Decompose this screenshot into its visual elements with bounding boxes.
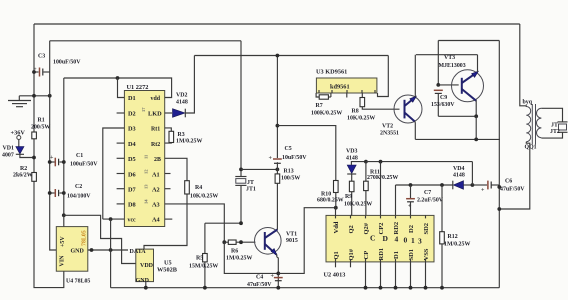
svg-text:D7: D7 <box>128 187 136 194</box>
svg-text:104/100V: 104/100V <box>67 194 91 200</box>
svg-text:Q2#: Q2# <box>363 222 370 234</box>
svg-text:VT1: VT1 <box>286 232 297 238</box>
svg-text:Q1: Q1 <box>333 251 340 259</box>
svg-text:270K/0.25W: 270K/0.25W <box>367 175 398 181</box>
svg-text:13: 13 <box>144 184 149 189</box>
svg-text:U5: U5 <box>164 260 172 267</box>
svg-text:C4: C4 <box>256 275 263 281</box>
svg-text:47uF/50V: 47uF/50V <box>247 282 272 288</box>
svg-text:R9: R9 <box>345 194 352 200</box>
svg-text:U3 KD9561: U3 KD9561 <box>316 69 347 76</box>
svg-text:MJE13003: MJE13003 <box>439 63 466 69</box>
svg-text:2B: 2B <box>154 157 161 163</box>
svg-text:U1 2272: U1 2272 <box>127 84 149 91</box>
svg-text:153/630V: 153/630V <box>431 102 455 108</box>
svg-text:R5: R5 <box>196 256 203 262</box>
svg-text:D: D <box>383 234 389 243</box>
svg-text:vcc: vcc <box>128 218 137 224</box>
svg-text:D4: D4 <box>128 141 137 148</box>
svg-text:C5: C5 <box>285 146 292 152</box>
svg-text:A2: A2 <box>152 187 160 194</box>
svg-text:GND: GND <box>71 248 85 254</box>
svg-text:1M/0.25W: 1M/0.25W <box>444 242 470 248</box>
svg-text:R8: R8 <box>352 109 359 115</box>
svg-text:LKD: LKD <box>148 111 162 118</box>
svg-text:R6: R6 <box>231 249 238 255</box>
svg-text:VT3: VT3 <box>444 55 455 61</box>
svg-text:C7: C7 <box>424 190 431 196</box>
svg-text:SD2: SD2 <box>423 223 430 235</box>
svg-text:VSS: VSS <box>423 248 430 260</box>
svg-text:D6: D6 <box>128 171 136 178</box>
svg-text:+: + <box>271 274 275 280</box>
svg-text:VDD: VDD <box>140 263 154 269</box>
svg-text:DATA: DATA <box>130 249 147 255</box>
svg-text:R1: R1 <box>38 118 45 124</box>
svg-text:12: 12 <box>144 169 149 174</box>
svg-text:2k6/2W: 2k6/2W <box>13 173 33 179</box>
svg-text:+: + <box>269 156 273 162</box>
svg-text:680/0.25W: 680/0.25W <box>317 198 344 204</box>
svg-text:D5: D5 <box>128 156 136 163</box>
svg-text:GND: GND <box>136 278 150 284</box>
svg-text:D1: D1 <box>393 251 400 259</box>
svg-text:W502B: W502B <box>157 267 178 274</box>
svg-text:200/5W: 200/5W <box>31 125 50 131</box>
svg-text:10K/0.25W: 10K/0.25W <box>190 194 218 200</box>
svg-text:1M/0.25W: 1M/0.25W <box>226 256 252 262</box>
svg-text:4148: 4148 <box>176 100 188 106</box>
svg-text:4148: 4148 <box>453 173 465 179</box>
svg-text:0: 0 <box>404 236 408 245</box>
svg-text:100/5W: 100/5W <box>281 176 300 182</box>
svg-text:C: C <box>370 234 375 243</box>
svg-text:100uF/50V: 100uF/50V <box>53 60 81 66</box>
svg-text:4148: 4148 <box>346 156 358 162</box>
svg-text:VD2: VD2 <box>176 93 188 99</box>
svg-text:1: 1 <box>411 236 415 245</box>
svg-text:4007: 4007 <box>2 153 14 159</box>
svg-text:10uF/50V: 10uF/50V <box>282 155 307 161</box>
svg-text:C2: C2 <box>75 184 82 190</box>
svg-text:QQ1: QQ1 <box>525 145 537 151</box>
svg-text:D1: D1 <box>128 95 136 102</box>
svg-text:R12: R12 <box>448 234 458 240</box>
svg-text:Rt2: Rt2 <box>151 142 160 148</box>
svg-text:VIN: VIN <box>60 255 66 267</box>
svg-text:R2: R2 <box>20 166 27 172</box>
svg-text:Q1#: Q1# <box>348 248 355 260</box>
svg-text:JT: JT <box>247 180 254 186</box>
svg-text:+: + <box>50 155 54 161</box>
svg-text:11: 11 <box>144 154 149 159</box>
svg-text:C3: C3 <box>38 54 45 60</box>
svg-text:U4 78L05: U4 78L05 <box>66 278 90 284</box>
svg-text:VD1: VD1 <box>3 146 15 152</box>
svg-text:100K/0.25W: 100K/0.25W <box>311 111 342 117</box>
svg-text:+: + <box>481 188 485 194</box>
svg-text:Q2: Q2 <box>348 225 355 233</box>
svg-text:JT2: JT2 <box>550 129 560 135</box>
svg-text:VD3: VD3 <box>346 149 358 155</box>
svg-text:A4: A4 <box>152 217 161 224</box>
svg-text:Rt1: Rt1 <box>151 127 160 133</box>
svg-text:D3: D3 <box>128 126 136 133</box>
svg-text:100uF/50V: 100uF/50V <box>70 162 98 168</box>
svg-text:10K/0.25W: 10K/0.25W <box>347 116 375 122</box>
svg-text:JT: JT <box>551 123 558 129</box>
svg-text:kd9561: kd9561 <box>330 84 350 91</box>
svg-text:C1: C1 <box>76 153 83 159</box>
svg-text:C9: C9 <box>440 95 447 101</box>
svg-text:10K/0.25W: 10K/0.25W <box>344 202 372 208</box>
svg-text:D2: D2 <box>128 111 136 118</box>
svg-text:R7: R7 <box>316 103 323 109</box>
svg-text:byq: byq <box>523 100 533 106</box>
svg-text:CP2: CP2 <box>378 223 385 235</box>
svg-text:VT2: VT2 <box>382 124 393 130</box>
svg-text:R4: R4 <box>195 185 202 191</box>
svg-text:Vdd: Vdd <box>333 221 340 233</box>
svg-text:2N3551: 2N3551 <box>380 131 399 137</box>
svg-text:R13: R13 <box>284 169 294 175</box>
svg-text:U2 4013: U2 4013 <box>324 272 346 279</box>
svg-text:2.2uF/50V: 2.2uF/50V <box>417 198 444 204</box>
svg-text:15M/0.25W: 15M/0.25W <box>189 264 218 270</box>
svg-text:D2: D2 <box>408 225 415 233</box>
svg-text:D8: D8 <box>128 202 136 209</box>
svg-text:4: 4 <box>395 235 399 244</box>
svg-text:C6: C6 <box>505 179 512 185</box>
svg-text:vdd: vdd <box>151 96 161 102</box>
svg-text:17: 17 <box>141 107 146 112</box>
svg-text:3: 3 <box>418 237 422 246</box>
svg-text:CP: CP <box>363 251 370 260</box>
svg-text:SD1: SD1 <box>408 249 415 261</box>
svg-text:R3: R3 <box>178 132 185 138</box>
svg-text:1M/0.25W: 1M/0.25W <box>176 139 202 145</box>
svg-text:RD2: RD2 <box>393 222 400 235</box>
svg-text:A3: A3 <box>152 202 160 209</box>
svg-text:78L05: 78L05 <box>82 230 88 246</box>
svg-text:+5V: +5V <box>60 236 66 247</box>
svg-text:14: 14 <box>144 199 149 204</box>
svg-text:9015: 9015 <box>286 238 298 244</box>
svg-text:47uF/50V: 47uF/50V <box>500 187 525 193</box>
svg-text:RD1: RD1 <box>378 248 385 261</box>
svg-text:VD4: VD4 <box>453 166 465 172</box>
svg-text:JT1: JT1 <box>246 187 256 193</box>
svg-text:A1: A1 <box>152 171 160 178</box>
